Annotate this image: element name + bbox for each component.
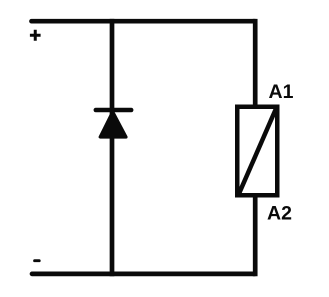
svg-text:A2: A2 (267, 202, 292, 224)
svg-text:A1: A1 (269, 81, 294, 103)
